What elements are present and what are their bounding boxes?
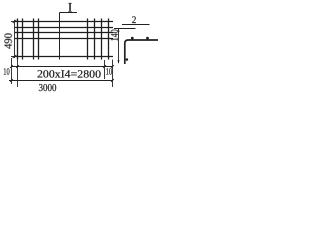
svg-text:490: 490 <box>3 33 15 49</box>
svg-text:I: I <box>68 0 72 14</box>
svg-text:140: 140 <box>110 29 121 41</box>
svg-text:2: 2 <box>132 15 137 26</box>
svg-text:200xI4=2800: 200xI4=2800 <box>37 68 102 80</box>
svg-text:10: 10 <box>106 67 113 77</box>
svg-text:10: 10 <box>3 67 10 77</box>
svg-text:3000: 3000 <box>38 83 56 94</box>
